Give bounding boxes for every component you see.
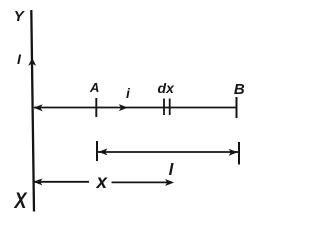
dimension l right bar — [238, 142, 240, 165]
current i arrow — [119, 104, 128, 111]
svg-text:i: i — [126, 85, 131, 101]
svg-text:Y: Y — [14, 8, 26, 25]
svg-text:A: A — [89, 80, 99, 95]
dimension x right arrow — [165, 179, 174, 186]
wire along Y axis — [31, 10, 34, 212]
dimension l line — [97, 151, 239, 153]
element dx tick 1 — [163, 99, 165, 116]
dimension l left bar — [96, 141, 98, 161]
dimension l left arrow — [98, 148, 107, 155]
svg-text:B: B — [234, 81, 245, 98]
dimension l right arrow — [229, 149, 238, 156]
svg-text:dx: dx — [158, 80, 176, 96]
node A tick — [95, 98, 97, 117]
svg-text:X: X — [13, 188, 28, 213]
svg-text:l: l — [169, 160, 175, 179]
svg-text:x: x — [96, 172, 109, 193]
dimension x line right segment — [112, 181, 173, 183]
arrowhead rod line to wire — [34, 104, 43, 111]
element dx tick 2 — [169, 99, 171, 116]
node B tick — [236, 97, 238, 118]
current I arrow on wire — [28, 58, 36, 66]
svg-text:I: I — [17, 51, 22, 67]
dimension x line left segment — [34, 181, 89, 183]
dimension x left arrow — [33, 178, 42, 185]
wire rod AB line — [34, 107, 237, 109]
